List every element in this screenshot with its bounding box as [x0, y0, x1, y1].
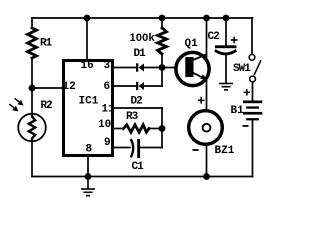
- svg-text:R2: R2: [41, 100, 53, 112]
- wire pin3 to D1: [114, 67, 136, 69]
- resistor R1: [28, 28, 37, 58]
- svg-text:9: 9: [104, 137, 111, 149]
- svg-text:R3: R3: [126, 111, 139, 123]
- svg-text:C2: C2: [208, 31, 220, 43]
- wire pin16 riser: [86, 18, 88, 60]
- svg-text:8: 8: [86, 144, 93, 156]
- resistor R3: [124, 125, 150, 132]
- BZ1 plus sign: [198, 97, 205, 104]
- svg-text:B1: B1: [231, 105, 245, 117]
- svg-text:100k: 100k: [130, 32, 156, 44]
- wire top rail: [32, 17, 253, 19]
- wire SW1 to battery: [252, 82, 254, 101]
- svg-text:10: 10: [98, 119, 111, 131]
- ground below IC pin 8: [81, 177, 95, 196]
- capacitor C2: [215, 45, 237, 54]
- wire C2 top stub: [225, 18, 227, 46]
- wire R3 to dot: [149, 128, 162, 130]
- wire R1 to R2: [31, 58, 33, 114]
- wire R2 to bottom rail: [31, 141, 33, 177]
- light arrow 2: [9, 104, 18, 111]
- wire SW1 top drop: [251, 18, 253, 54]
- svg-text:12: 12: [63, 81, 76, 93]
- light arrow 1: [15, 98, 24, 105]
- wire pin11: [114, 107, 162, 109]
- wire Q1 collector riser: [206, 18, 208, 109]
- wire 100k bottom to D2 riser: [161, 54, 163, 86]
- svg-text:6: 6: [104, 81, 111, 93]
- wire bottom rail: [32, 176, 253, 178]
- svg-text:R1: R1: [40, 38, 53, 50]
- svg-text:IC1: IC1: [79, 96, 99, 108]
- wire pin10 stub: [114, 128, 124, 130]
- ground below C2: [219, 84, 233, 90]
- wire BZ1 bottom drop: [206, 146, 208, 177]
- svg-text:Q1: Q1: [185, 38, 199, 50]
- wire riser pin11 to pin9: [161, 108, 163, 148]
- svg-text:D1: D1: [134, 48, 147, 60]
- svg-text:16: 16: [81, 60, 94, 72]
- wire D1 to Q1 base: [144, 67, 186, 69]
- svg-text:D2: D2: [131, 96, 143, 108]
- svg-text:BZ1: BZ1: [215, 145, 235, 157]
- transistor Q1: [176, 52, 209, 85]
- svg-text:11: 11: [102, 104, 116, 116]
- B1 minus sign: [243, 125, 249, 127]
- node junction dots: [29, 15, 230, 180]
- IC1 box: [64, 61, 113, 156]
- battery B1: [243, 101, 262, 121]
- wire C1 to riser: [141, 147, 163, 149]
- B1 plus sign: [244, 89, 250, 95]
- wire 100k top stub: [161, 18, 163, 28]
- wire pin8 drop: [87, 156, 89, 177]
- wire pin12: [32, 87, 62, 89]
- svg-text:C1: C1: [132, 161, 145, 173]
- buzzer BZ1: [189, 111, 223, 145]
- wire pin9 to C1: [114, 147, 130, 149]
- photoresistor R2: [18, 114, 46, 142]
- C2 plus sign: [231, 37, 238, 44]
- diode D2: [136, 82, 144, 90]
- wire C2 to ground: [225, 54, 227, 83]
- BZ1 minus sign: [193, 149, 199, 151]
- wire left branch top: [31, 18, 33, 28]
- wire D2 to riser: [144, 85, 162, 87]
- diode D1: [136, 63, 144, 71]
- svg-text:SW1: SW1: [233, 63, 251, 75]
- resistor 100k: [158, 28, 167, 54]
- capacitor C1: [131, 139, 140, 158]
- wire pin6 to D2: [114, 85, 136, 87]
- switch SW1: [249, 54, 261, 82]
- svg-text:3: 3: [104, 60, 111, 72]
- wire battery to bottom rail: [252, 121, 254, 177]
